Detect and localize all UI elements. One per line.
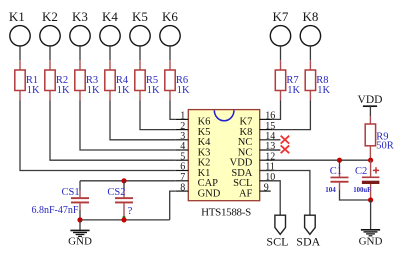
wire R2 to IC pin [50,100,176,160]
IC pin 11 (SDA) [231,162,274,179]
svg-text:R7: R7 [286,75,298,86]
svg-text:1K: 1K [147,85,160,96]
svg-text:K2: K2 [42,9,58,24]
capacitor CS1 [32,181,90,220]
svg-text:6.8nF-47nF: 6.8nF-47nF [32,205,79,216]
wire R1 to IC pin [20,100,176,170]
wire pin8 GND to rail [170,191,176,220]
svg-text:SCL: SCL [266,235,288,249]
svg-text:100uF: 100uF [353,187,371,194]
svg-text:CS1: CS1 [62,187,80,198]
capacitor C1 104 [325,160,370,200]
wire K7 to R7 [280,46,282,60]
svg-text:GND: GND [198,188,221,199]
resistor R4 1K [105,60,130,100]
svg-text:AF: AF [239,188,253,199]
wire pin11 SDA [260,171,310,216]
svg-text:HTS1588-S: HTS1588-S [201,206,251,218]
IC pin 15 (K8) [240,121,276,138]
key switch K6 [160,9,180,46]
svg-text:R3: R3 [86,75,98,86]
wire R7 to IC pin [272,100,280,119]
wire pin7 CAP net [80,180,176,182]
wire R8 to IC pin [272,100,310,129]
key switch K8 [300,9,320,46]
IC pin 13 (NC) [238,141,281,158]
no-connect X marker pin 14 [281,136,290,144]
wire K2 to R2 [49,46,51,60]
resistor R3 1K [75,60,100,100]
svg-text:K8: K8 [302,9,318,24]
svg-text:K4: K4 [102,9,118,24]
svg-text:K5: K5 [132,9,148,24]
resistor R8 1K [305,60,330,100]
svg-text:K1: K1 [9,9,25,24]
svg-text:R6: R6 [176,75,188,86]
svg-text:?: ? [128,205,133,217]
svg-text:K7: K7 [273,9,289,24]
power port VDD [358,94,383,116]
svg-text:1K: 1K [177,85,190,96]
wire R4 to IC pin [110,100,176,140]
svg-text:R5: R5 [146,75,158,86]
resistor R2 1K [45,60,70,100]
svg-text:1K: 1K [87,85,100,96]
svg-text:C2: C2 [355,166,367,177]
connector SCL [266,215,288,248]
svg-text:8: 8 [180,182,185,193]
svg-text:GND: GND [359,236,383,248]
svg-text:9: 9 [264,182,269,193]
wire R3 to IC pin [80,100,176,150]
wire K8 to R8 [309,46,311,60]
junction node C2 bottom [368,197,373,202]
op IC U1 HTS1588-S body [188,110,259,201]
IC pin 10 (SCL) [233,172,275,189]
svg-text:104: 104 [325,186,336,194]
IC pin 5 (K2) [176,151,211,168]
junction node C2/R9 top [368,158,373,163]
key switch K2 [40,9,60,46]
wire K6 to R6 [169,46,171,60]
svg-text:CS2: CS2 [107,187,125,198]
wire pin12 VDD rail [260,159,371,161]
key switch K1 [9,9,30,46]
resistor R6 1K [165,60,190,100]
junction node CS2 bottom [121,217,126,222]
IC pin 8 (GND) [176,182,221,199]
IC pin 16 (K7) [240,111,276,128]
svg-text:R2: R2 [56,75,68,86]
key switch K5 [130,9,150,46]
IC pin 9 (AF) [239,182,271,199]
svg-text:R8: R8 [316,75,328,86]
wire K1 to R1 [19,46,21,60]
ground symbol (right) [359,200,383,248]
svg-text:50R: 50R [376,141,394,152]
capacitor CS2 [107,181,133,220]
wire K4 to R4 [109,46,111,60]
svg-text:1K: 1K [117,85,130,96]
junction node CS2 top [121,178,126,183]
svg-text:1K: 1K [287,85,300,96]
capacitor C2 100uF (polarized) [353,160,379,200]
svg-text:K3: K3 [72,9,88,24]
svg-text:1K: 1K [317,85,330,96]
junction node CS1 bottom [77,217,82,222]
IC pin 12 (VDD) [230,151,276,168]
key switch K7 [270,9,290,46]
IC pin 4 (K3) [176,141,211,158]
svg-text:1K: 1K [27,85,40,96]
svg-text:R1: R1 [26,75,38,86]
key switch K4 [100,9,120,46]
IC pin 7 (CAP) [176,172,218,189]
svg-text:GND: GND [68,235,92,247]
IC pin 3 (K4) [176,131,211,148]
wire K5 to R5 [139,46,141,60]
resistor R9 50R [365,116,394,160]
connector SDA [296,215,320,248]
no-connect X marker pin 13 [281,145,290,153]
svg-text:C1: C1 [330,166,342,177]
svg-text:VDD: VDD [358,94,383,106]
ground symbol (left) [68,220,92,247]
IC pin 14 (NC) [238,131,281,148]
wire GND rail (CS caps) [80,219,170,221]
svg-text:K6: K6 [162,9,178,24]
wire R6 to IC pin [170,100,176,119]
resistor R5 1K [135,60,160,100]
svg-text:R4: R4 [116,75,129,86]
resistor R1 1K [15,60,40,100]
wire K3 to R3 [79,46,81,60]
IC U1 top notch [214,110,234,121]
junction node C1 top [337,158,342,163]
svg-text:SDA: SDA [296,235,320,249]
resistor R7 1K [275,60,300,100]
svg-text:1K: 1K [57,85,70,96]
wire R5 to IC pin [140,100,176,129]
IC pin 1 (K6) [176,111,211,128]
IC pin 2 (K5) [176,121,211,138]
wire pin10 SCL [260,181,281,215]
IC pin 6 (K1) [176,162,211,179]
key switch K3 [70,9,90,46]
